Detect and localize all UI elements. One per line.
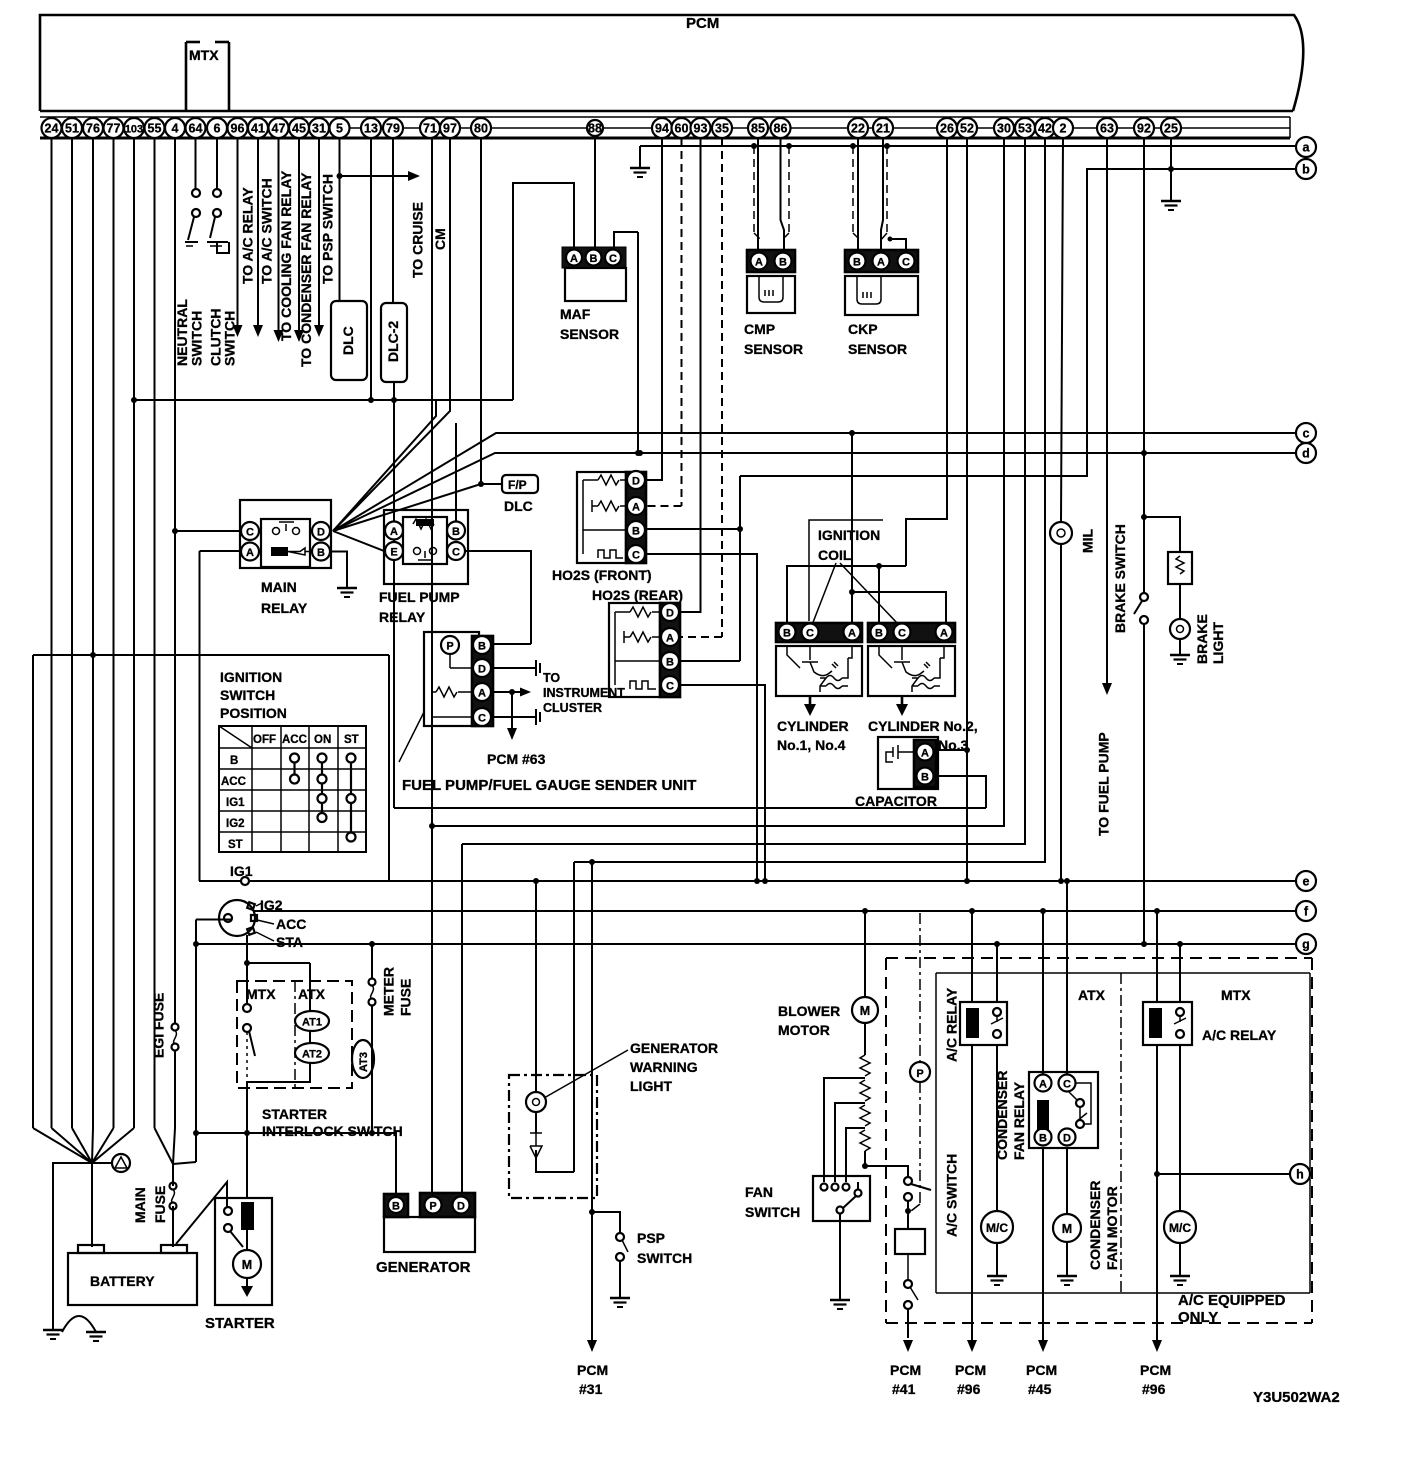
- svg-text:TO CONDENSER FAN RELAY: TO CONDENSER FAN RELAY: [298, 172, 314, 367]
- svg-text:IG1: IG1: [226, 797, 245, 809]
- PCM pin 52: [957, 118, 977, 138]
- svg-text:M: M: [860, 1004, 870, 1018]
- PCM pin 24: [42, 118, 62, 138]
- svg-text:BRAKE: BRAKE: [1194, 614, 1210, 664]
- wire pin 94 to HO2S front D: [646, 138, 662, 480]
- svg-text:CAPACITOR: CAPACITOR: [855, 793, 937, 809]
- svg-text:d: d: [1302, 447, 1310, 461]
- svg-text:A: A: [1039, 1079, 1047, 1091]
- svg-text:P: P: [429, 1201, 436, 1213]
- noise condenser: [92, 1162, 112, 1164]
- svg-text:64: 64: [189, 122, 203, 136]
- resistor taps: [824, 1078, 865, 1182]
- blower resistors: [864, 1023, 866, 1055]
- svg-text:IG2: IG2: [226, 818, 245, 830]
- F/P DLC: [481, 483, 502, 485]
- wire to cruise with arrow: [340, 175, 409, 177]
- svg-text:A: A: [755, 257, 763, 269]
- PCM pin 31: [309, 118, 329, 138]
- wire to A/C switch: [865, 1166, 908, 1177]
- wire FPR B up: [455, 423, 457, 521]
- svg-text:AT2: AT2: [302, 1049, 322, 1061]
- svg-text:FUEL PUMP/FUEL GAUGE SENDER UN: FUEL PUMP/FUEL GAUGE SENDER UNIT: [402, 777, 696, 794]
- brake light bulb: [1170, 619, 1190, 639]
- svg-text:RELAY: RELAY: [261, 600, 308, 616]
- svg-text:B: B: [317, 547, 325, 559]
- svg-text:13: 13: [364, 122, 378, 136]
- wire coil A bus: [852, 592, 946, 623]
- svg-text:MTX: MTX: [246, 986, 276, 1002]
- PCM pin 80: [471, 118, 491, 138]
- svg-text:GENERATOR: GENERATOR: [630, 1040, 718, 1056]
- svg-text:BATTERY: BATTERY: [90, 1273, 155, 1289]
- svg-text:Y3U502WA2: Y3U502WA2: [1253, 1389, 1340, 1406]
- svg-text:92: 92: [1137, 122, 1151, 136]
- cylinder 2-3 arrow: [901, 696, 904, 706]
- svg-text:FUSE: FUSE: [152, 1186, 168, 1223]
- PCM pin 45: [289, 118, 309, 138]
- PCM pin 51: [62, 118, 82, 138]
- svg-text:FAN: FAN: [745, 1184, 773, 1200]
- wire pin 35 dashed to HO2S rear A: [721, 138, 723, 637]
- svg-text:C: C: [478, 713, 486, 725]
- svg-text:h: h: [1296, 1168, 1304, 1182]
- ACC stub: [196, 919, 232, 921]
- DLC-2 box: [381, 303, 407, 382]
- wire pin 6 clutch switch upper: [216, 138, 218, 189]
- PCM pin 79: [383, 118, 403, 138]
- svg-text:LIGHT: LIGHT: [630, 1078, 672, 1094]
- DLC box: [331, 301, 367, 380]
- PCM pin 96: [228, 118, 248, 138]
- P pressure switch: [910, 1062, 930, 1082]
- c-line with fan: [333, 433, 1296, 531]
- fan vertical x436: [333, 400, 436, 531]
- generator connectors: [384, 1193, 475, 1252]
- wire b-line: [740, 169, 1296, 476]
- svg-text:B: B: [590, 253, 598, 265]
- left fan to battery: [33, 1128, 134, 1163]
- svg-text:D: D: [457, 1201, 465, 1213]
- node pin76 to ignition feed: [90, 652, 96, 658]
- node b: [1296, 159, 1316, 179]
- right fan to main fuse: [155, 1128, 197, 1164]
- svg-text:FAN RELAY: FAN RELAY: [1011, 1081, 1027, 1160]
- svg-text:ATX: ATX: [298, 986, 326, 1002]
- wire pin 76: [92, 138, 94, 1128]
- inner solid box: [936, 973, 1310, 1293]
- node g: [1296, 934, 1316, 954]
- PCM 45 arrow under B: [1042, 1148, 1044, 1340]
- wire sender D to instrument cluster terminal: [491, 667, 536, 669]
- svg-text:INSTRUMENT: INSTRUMENT: [543, 686, 625, 700]
- svg-text:B: B: [783, 628, 791, 640]
- svg-text:HO2S (FRONT): HO2S (FRONT): [552, 567, 652, 583]
- svg-text:55: 55: [148, 122, 162, 136]
- PCM pin 22: [848, 118, 868, 138]
- svg-text:2: 2: [1060, 122, 1067, 136]
- svg-text:96: 96: [231, 122, 245, 136]
- svg-text:SWITCH: SWITCH: [189, 311, 205, 366]
- svg-text:4: 4: [172, 122, 179, 136]
- wire pin 71 long down to generator P: [431, 138, 433, 1194]
- svg-text:B: B: [632, 526, 640, 538]
- CONDENSER FAN RELAY: [1040, 908, 1046, 914]
- svg-text:SWITCH: SWITCH: [745, 1204, 800, 1220]
- node f: [1296, 901, 1316, 921]
- wire pin 22 to CKP B: [857, 138, 859, 250]
- svg-text:#31: #31: [579, 1381, 603, 1397]
- wire pin 24: [51, 138, 53, 1128]
- svg-text:C: C: [898, 628, 906, 640]
- svg-text:CYLINDER No.2,: CYLINDER No.2,: [868, 718, 978, 734]
- svg-text:PCM: PCM: [1026, 1362, 1057, 1378]
- PCM pin 41: [248, 118, 268, 138]
- svg-text:DLC: DLC: [340, 326, 356, 355]
- wire HO2S rear B to b riser: [680, 660, 740, 662]
- HO2S rear: [609, 603, 680, 697]
- svg-text:A/C EQUIPPED: A/C EQUIPPED: [1178, 1292, 1286, 1309]
- svg-text:CLUSTER: CLUSTER: [543, 701, 602, 715]
- PCM pin 92: [1134, 118, 1154, 138]
- svg-text:ST: ST: [228, 839, 243, 851]
- clutch switch: [207, 189, 228, 246]
- main horizontal y400 line: [134, 399, 513, 401]
- svg-text:B: B: [921, 772, 929, 784]
- ignition box left edge down to IG1: [199, 551, 201, 881]
- svg-text:51: 51: [65, 122, 79, 136]
- CMP sensor: [747, 250, 795, 313]
- cylinder 1-4 arrow: [809, 696, 812, 706]
- wire capacitor A to pin52 line: [934, 749, 967, 751]
- PCM pin 88: [587, 120, 603, 136]
- PCM pin 77: [104, 118, 124, 138]
- wire pin 85 to CMP A: [757, 138, 759, 250]
- svg-text:D: D: [478, 664, 486, 676]
- svg-text:WARNING: WARNING: [630, 1059, 698, 1075]
- wire g-line STA feed: [196, 943, 1296, 945]
- svg-text:C: C: [1063, 1079, 1071, 1091]
- wire sender C to instrument cluster terminal: [491, 716, 536, 718]
- svg-text:TO FUEL PUMP: TO FUEL PUMP: [1096, 732, 1112, 836]
- wire HO2S B riser: [739, 476, 741, 661]
- svg-text:76: 76: [86, 122, 100, 136]
- wire capacitor B to trunk807: [934, 776, 986, 808]
- ignition coil 1: [776, 623, 862, 696]
- wire HO2S front C down to e-line: [646, 554, 757, 881]
- HO2S front: [577, 471, 646, 563]
- svg-text:E: E: [390, 547, 397, 559]
- svg-text:P: P: [916, 1068, 923, 1080]
- wire pin 13: [370, 138, 372, 400]
- d-line with fan: [333, 453, 1296, 531]
- battery: [68, 1245, 197, 1305]
- A/C SWITCH: [904, 1177, 912, 1185]
- svg-text:C: C: [452, 547, 460, 559]
- svg-text:FUEL PUMP: FUEL PUMP: [379, 589, 460, 605]
- PCM pin 60: [672, 118, 692, 138]
- svg-text:ACC: ACC: [221, 776, 246, 788]
- PCM pin 35: [712, 118, 732, 138]
- wire pin 96 arrow TO A/C RELAY: [237, 138, 239, 325]
- svg-text:A: A: [478, 688, 486, 700]
- svg-text:SENSOR: SENSOR: [560, 326, 619, 342]
- PCM pin 85: [748, 118, 768, 138]
- svg-text:SWITCH: SWITCH: [222, 311, 238, 366]
- wire pin 31 arrow TO PSP SWITCH: [318, 138, 320, 325]
- svg-text:M/C: M/C: [1169, 1221, 1191, 1235]
- svg-text:86: 86: [774, 122, 788, 136]
- svg-text:D: D: [666, 608, 674, 620]
- node a: [1296, 137, 1316, 157]
- svg-text:CONDENSER: CONDENSER: [1087, 1181, 1103, 1270]
- wire pin 64 neutral switch upper: [195, 138, 197, 189]
- svg-text:C: C: [632, 550, 640, 562]
- svg-text:93: 93: [694, 122, 708, 136]
- svg-text:e: e: [1303, 875, 1310, 889]
- trunk 806: [394, 807, 986, 809]
- svg-text:C: C: [666, 681, 674, 693]
- PCM pin 55: [145, 118, 165, 138]
- node c: [1296, 423, 1316, 443]
- wire pin 79 to DLC-2: [392, 138, 394, 303]
- svg-text:C: C: [246, 527, 254, 539]
- svg-text:#45: #45: [1028, 1381, 1052, 1397]
- table circles and links: [290, 754, 356, 842]
- wire CKP C hook: [890, 239, 906, 250]
- svg-text:MTX: MTX: [1221, 987, 1251, 1003]
- svg-text:CYLINDER: CYLINDER: [777, 718, 849, 734]
- wire a-line shield ground bus: [640, 145, 1296, 147]
- svg-text:C: C: [902, 257, 910, 269]
- PCM pin 5: [330, 118, 350, 138]
- wire HO2S rear C down to e-line: [680, 685, 765, 881]
- svg-text:CM: CM: [432, 228, 448, 250]
- svg-text:CKP: CKP: [848, 321, 878, 337]
- svg-text:B: B: [853, 257, 861, 269]
- wire pin 55: [154, 138, 156, 1128]
- svg-text:M: M: [242, 1258, 252, 1272]
- main relay U1: [240, 500, 331, 568]
- svg-text:D: D: [317, 527, 325, 539]
- svg-text:SENSOR: SENSOR: [744, 341, 803, 357]
- trunk 844: [462, 138, 1025, 844]
- node pin103 junction y400: [131, 397, 137, 403]
- svg-text:CMP: CMP: [744, 321, 775, 337]
- svg-text:BLOWER: BLOWER: [778, 1003, 840, 1019]
- svg-text:26: 26: [940, 122, 954, 136]
- wire sender A with PCM 63 arrow: [491, 691, 506, 693]
- svg-text:PCM: PCM: [577, 1362, 608, 1378]
- IGNITION COIL label: [809, 520, 883, 621]
- svg-text:85: 85: [751, 122, 765, 136]
- svg-text:INTERLOCK SWITCH: INTERLOCK SWITCH: [262, 1123, 403, 1139]
- wire MAF C routing: [614, 232, 638, 248]
- svg-text:PCM #63: PCM #63: [487, 751, 546, 767]
- wire pin 6 below switch to MTX box corner: [217, 242, 229, 253]
- svg-text:PCM: PCM: [686, 15, 719, 32]
- fuel pump relay: [384, 510, 468, 584]
- svg-text:103: 103: [125, 124, 143, 136]
- trunk 826: [432, 138, 1004, 826]
- svg-text:A: A: [940, 628, 948, 640]
- svg-text:OFF: OFF: [253, 734, 276, 746]
- PCM pin 97: [440, 118, 460, 138]
- node d: [1296, 443, 1316, 463]
- svg-text:22: 22: [851, 122, 865, 136]
- wire pin 63 TO FUEL PUMP: [1106, 138, 1108, 683]
- svg-text:A: A: [570, 253, 578, 265]
- svg-text:#41: #41: [892, 1381, 916, 1397]
- svg-text:STA: STA: [276, 934, 303, 950]
- svg-text:HO2S (REAR): HO2S (REAR): [592, 587, 683, 603]
- wire pin 92 brake switch: [1143, 138, 1145, 592]
- PCM pin 103: [124, 118, 144, 138]
- svg-text:B: B: [230, 755, 238, 767]
- pointer line: [399, 712, 424, 762]
- svg-text:MOTOR: MOTOR: [778, 1022, 830, 1038]
- MTX relay outputs: [1156, 1045, 1158, 1340]
- svg-text:COIL: COIL: [818, 547, 852, 563]
- wire pin 4 to EGI fuse: [174, 138, 176, 1024]
- PCM pin 76: [83, 118, 103, 138]
- svg-text:FUSE: FUSE: [398, 979, 414, 1016]
- svg-text:RELAY: RELAY: [379, 609, 426, 625]
- svg-text:IGNITION: IGNITION: [220, 669, 282, 685]
- svg-text:M: M: [1062, 1222, 1072, 1236]
- wire pin 52 to capacitor / coil A2: [966, 138, 968, 881]
- neutral switch: [185, 189, 200, 246]
- svg-text:B: B: [666, 657, 674, 669]
- PCM pin 63: [1097, 118, 1117, 138]
- svg-text:A: A: [246, 547, 254, 559]
- wire pin 88 to MAF B: [594, 138, 596, 248]
- svg-text:#96: #96: [957, 1381, 981, 1397]
- svg-text:A/C SWITCH: A/C SWITCH: [944, 1154, 960, 1237]
- wire sender B link: [491, 643, 531, 645]
- MAF sensor connector: [562, 247, 626, 301]
- wire f-line IG2 feed: [254, 910, 1296, 912]
- node e: [1296, 871, 1316, 891]
- svg-text:AT3: AT3: [358, 1052, 370, 1072]
- wire pin 80 to F/P DLC and main relay fan: [333, 138, 481, 531]
- wire pin 103: [133, 138, 135, 1128]
- feed line y655: [33, 654, 389, 656]
- svg-text:88: 88: [588, 122, 602, 136]
- PCM pin 93: [691, 118, 711, 138]
- svg-text:A: A: [921, 748, 929, 760]
- wire pin 86 to CMP B: [781, 138, 785, 250]
- svg-text:71: 71: [423, 122, 437, 136]
- svg-text:ONLY: ONLY: [1178, 1309, 1218, 1326]
- svg-text:21: 21: [876, 122, 890, 136]
- svg-text:B: B: [779, 257, 787, 269]
- wire pin 93 to HO2S rear D: [680, 138, 701, 612]
- svg-text:MAIN: MAIN: [261, 579, 297, 595]
- ignition box right edge: [388, 655, 390, 881]
- svg-text:A: A: [848, 628, 856, 640]
- battery arc to second ground: [62, 1316, 96, 1332]
- PCM pin 2: [1053, 118, 1073, 138]
- PCM pin 6: [207, 118, 227, 138]
- shield dash CKP: [850, 143, 856, 149]
- svg-text:52: 52: [960, 122, 974, 136]
- svg-text:24: 24: [45, 122, 59, 136]
- FAN SWITCH box: [813, 1176, 870, 1221]
- svg-text:TO PSP SWITCH: TO PSP SWITCH: [320, 174, 336, 284]
- wire MAF A routing: [513, 183, 574, 400]
- svg-text:b: b: [1302, 163, 1310, 177]
- svg-text:MTX: MTX: [189, 47, 219, 63]
- svg-text:79: 79: [386, 122, 400, 136]
- PCM pin 25: [1161, 118, 1181, 138]
- PCM pin 71: [420, 118, 440, 138]
- wire pin 45 arrow TO CONDENSER FAN RELAY: [298, 138, 300, 330]
- svg-text:5: 5: [336, 122, 343, 136]
- svg-text:P: P: [446, 641, 453, 653]
- svg-text:TO A/C RELAY: TO A/C RELAY: [240, 187, 256, 284]
- IG1 contact: [241, 877, 249, 885]
- MTX box at top: [186, 42, 229, 111]
- svg-text:77: 77: [107, 122, 121, 136]
- wire e-line IG1 feed: [199, 880, 1296, 882]
- svg-text:ACC: ACC: [282, 734, 307, 746]
- wire pin 47 arrow TO COOLING FAN RELAY: [278, 138, 280, 330]
- STA bus: [247, 935, 310, 963]
- svg-text:IG1: IG1: [230, 863, 253, 879]
- wire pin 26 to coil B bus: [906, 138, 947, 566]
- svg-text:ST: ST: [344, 734, 359, 746]
- PCM pin 30: [994, 118, 1014, 138]
- svg-text:STARTER: STARTER: [205, 1315, 275, 1332]
- trunk 862: [574, 138, 1045, 862]
- svg-text:METER: METER: [381, 967, 397, 1016]
- shield dash CMP: [751, 143, 757, 149]
- wire pin 97 to main relay fan: [333, 138, 450, 531]
- svg-text:M/C: M/C: [986, 1221, 1008, 1235]
- svg-text:PCM: PCM: [890, 1362, 921, 1378]
- svg-text:25: 25: [1164, 122, 1178, 136]
- svg-text:97: 97: [443, 122, 457, 136]
- svg-text:MAIN: MAIN: [132, 1187, 148, 1223]
- svg-text:#96: #96: [1142, 1381, 1166, 1397]
- brake switch: [1140, 593, 1148, 601]
- starter: [215, 1198, 272, 1305]
- CKP sensor: [845, 250, 918, 315]
- connector band chain line: [41, 127, 1290, 129]
- svg-text:F/P: F/P: [508, 478, 527, 492]
- wire fuel pump relay C to sender: [465, 551, 531, 644]
- svg-text:A/C RELAY: A/C RELAY: [1202, 1027, 1277, 1043]
- svg-text:ATX: ATX: [1078, 987, 1106, 1003]
- svg-text:a: a: [1303, 141, 1311, 155]
- svg-text:B: B: [452, 526, 460, 538]
- svg-text:SWITCH: SWITCH: [637, 1250, 692, 1266]
- condenser fan motor: [1066, 1148, 1068, 1214]
- svg-text:A: A: [390, 526, 398, 538]
- svg-text:IGNITION: IGNITION: [818, 527, 880, 543]
- PCM pin 42: [1035, 118, 1055, 138]
- ATX A/C relay: [969, 908, 975, 914]
- connector band bottom: [40, 137, 1290, 140]
- PCM pin 94: [652, 118, 672, 138]
- brake light resistor branch: [1144, 517, 1180, 552]
- svg-text:80: 80: [474, 122, 488, 136]
- svg-text:TO CRUISE: TO CRUISE: [410, 202, 426, 278]
- svg-text:TO COOLING FAN RELAY: TO COOLING FAN RELAY: [278, 170, 294, 341]
- dashed enclosure: [886, 958, 1312, 1323]
- svg-text:31: 31: [312, 122, 326, 136]
